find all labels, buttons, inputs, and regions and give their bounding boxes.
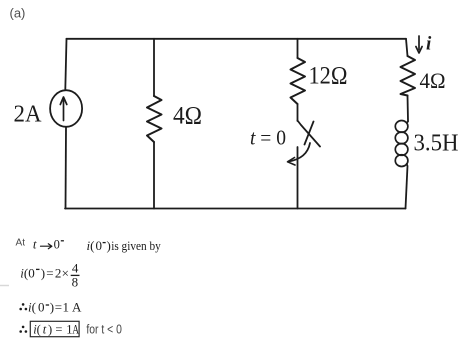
svg-text:2A: 2A [14,101,42,128]
svg-text:t: t [33,236,37,251]
svg-text:for t < 0: for t < 0 [86,323,122,337]
svg-text:12Ω: 12Ω [309,61,348,90]
svg-text:2: 2 [55,266,62,281]
svg-text:i(: i( [28,299,36,314]
svg-text:t = 0: t = 0 [250,125,286,149]
svg-text:At: At [16,238,26,249]
svg-text:4Ω: 4Ω [173,103,202,130]
svg-text:4Ω: 4Ω [420,68,446,93]
svg-text:is given by: is given by [111,238,161,253]
svg-text:4: 4 [72,261,79,276]
svg-text:): ) [107,238,111,253]
svg-text:): ) [41,266,45,281]
svg-text:): ) [50,299,54,314]
svg-text:=: = [55,323,62,337]
svg-text:(a): (a) [10,6,26,21]
svg-text:A: A [72,299,82,314]
svg-text:×: × [62,266,69,281]
svg-text:i(: i( [87,238,95,253]
svg-text:i: i [426,34,432,55]
svg-text:i(: i( [20,266,28,281]
svg-text:1: 1 [63,299,70,314]
svg-text:): ) [48,323,52,337]
svg-text:0: 0 [28,266,35,281]
svg-text:A: A [72,323,79,337]
svg-text:=: = [46,266,53,281]
svg-text:3.5H: 3.5H [414,131,459,157]
svg-text:0: 0 [38,299,45,314]
svg-text:0: 0 [96,238,103,253]
svg-text:t: t [43,323,47,337]
svg-text:8: 8 [72,275,79,290]
svg-text:=: = [55,299,62,314]
svg-text:0: 0 [54,237,60,251]
svg-text:i(: i( [33,323,41,337]
